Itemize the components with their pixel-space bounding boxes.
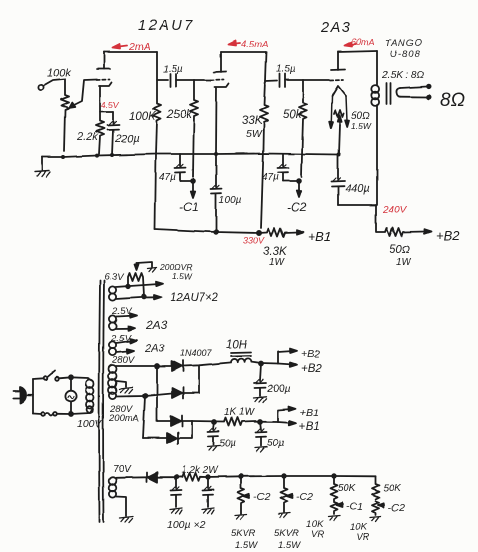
hum pot 50 ohm — [334, 110, 372, 155]
svg-text:1N4007: 1N4007 — [180, 348, 213, 358]
svg-text:10H: 10H — [226, 339, 248, 351]
svg-text:50K: 50K — [383, 483, 402, 494]
svg-text:VR: VR — [356, 532, 369, 543]
AC plug — [13, 379, 33, 414]
power switch — [33, 371, 71, 381]
resistor 100K plate load — [129, 52, 161, 229]
svg-text:2A3: 2A3 — [320, 20, 351, 36]
wire pot wiper to V1A grid — [70, 80, 98, 108]
svg-text:100K: 100K — [129, 111, 157, 123]
svg-text:4.5V: 4.5V — [101, 100, 120, 110]
input jack J1 — [38, 79, 64, 90]
svg-text:-C2: -C2 — [287, 200, 307, 214]
svg-text:+B1: +B1 — [300, 407, 319, 419]
capacitor 1.5µ coupling stage1 — [157, 64, 194, 87]
svg-text:1.5W: 1.5W — [172, 271, 193, 281]
label 2.5K : 8 ohm — [381, 70, 424, 81]
svg-text:1.5W: 1.5W — [351, 121, 372, 131]
resistor 3.3K 1W to +B1 — [259, 229, 332, 269]
tube V1B plate — [214, 52, 226, 72]
svg-text:-C2: -C2 — [296, 491, 313, 503]
bias divider 50K + 10K VR for C1 — [306, 476, 363, 540]
svg-text:+B1: +B1 — [299, 421, 320, 433]
heater hum pot 200 ohm VR — [128, 262, 193, 296]
svg-text:4.5mA: 4.5mA — [241, 39, 268, 50]
diode D5 bias rectifier — [147, 472, 177, 482]
capacitor 220µ cathode bypass — [107, 112, 140, 155]
svg-text:60mA: 60mA — [351, 37, 375, 47]
bias distribution rail — [174, 474, 375, 479]
svg-text:1K 1W: 1K 1W — [224, 407, 256, 418]
svg-text:+B2: +B2 — [301, 348, 320, 360]
HT winding 280V — [108, 355, 157, 424]
svg-text:1.5W: 1.5W — [235, 540, 258, 551]
svg-text:1.5µ: 1.5µ — [276, 64, 296, 75]
svg-text:200mA: 200mA — [108, 413, 139, 424]
filament winding 2.5V b — [109, 333, 166, 356]
wire D1 output — [183, 363, 230, 394]
diode D3 — [157, 416, 192, 427]
wire 2A3 plate to OPT — [338, 51, 377, 52]
svg-text:12AU7×2: 12AU7×2 — [170, 292, 219, 304]
svg-text:50k: 50k — [283, 109, 303, 121]
wire grid V1B — [194, 79, 211, 81]
tube V1B grid — [211, 79, 224, 82]
svg-text:33K: 33K — [242, 115, 264, 127]
mains primary winding 100V — [71, 377, 103, 430]
filament winding 2.5V a — [109, 306, 168, 332]
svg-text:+B2: +B2 — [301, 363, 322, 375]
label TANGO U-808 — [385, 38, 423, 60]
resistor 1K 1W — [192, 407, 256, 426]
red plate current arrow 60mA — [345, 37, 375, 47]
svg-text:100µ: 100µ — [219, 195, 242, 206]
svg-text:50K: 50K — [338, 483, 357, 494]
tube V1A cathode — [99, 83, 112, 113]
diode D4 — [143, 421, 192, 444]
svg-text:6.3V: 6.3V — [104, 272, 125, 283]
fuse — [33, 412, 90, 416]
bias pot 5K VR b — [274, 476, 313, 551]
svg-text:50µ: 50µ — [219, 438, 236, 449]
capacitor 50µ B1 b — [255, 420, 284, 452]
svg-text:220µ: 220µ — [114, 133, 140, 145]
bias pot 5K VR a — [231, 476, 270, 551]
svg-text:-C1: -C1 — [179, 200, 198, 214]
svg-text:50Ω: 50Ω — [389, 244, 411, 256]
svg-text:1W: 1W — [396, 257, 413, 268]
wire to +B1 arrows — [255, 407, 320, 433]
OPT core — [387, 83, 391, 104]
resistor 250k grid return — [166, 80, 198, 177]
arrow to -C1 — [179, 182, 198, 214]
label 8 ohm secondary — [440, 90, 465, 111]
svg-text:8Ω: 8Ω — [440, 90, 465, 111]
resistor 33K 5W plate load — [242, 52, 268, 228]
output transformer OPT primary — [371, 51, 379, 205]
tube V2 2A3 plate — [331, 52, 345, 70]
svg-text:5KVR: 5KVR — [274, 528, 299, 539]
capacitor 100µ bias b — [167, 477, 214, 531]
junction dots ground rail — [61, 152, 341, 159]
wire B1 supply line — [155, 229, 261, 235]
capacitor 100µ B1 filter — [211, 154, 242, 232]
choke 10H — [226, 339, 261, 363]
red plate current arrow 4.5mA — [229, 39, 269, 50]
tube V1B cathode — [215, 84, 229, 155]
bias divider 50K + 10K VR for C2 — [350, 476, 405, 543]
ground symbol left end — [35, 157, 50, 177]
tube V1A grid — [97, 79, 110, 82]
wire grid 2A3 — [303, 79, 329, 81]
capacitor 200µ B2 reservoir — [254, 362, 291, 403]
resistor 50k grid return 2A3 — [283, 80, 307, 177]
capacitor 100µ bias a — [170, 477, 182, 514]
svg-text:47µ: 47µ — [159, 172, 176, 183]
op tube V1A 12AU7 plate — [97, 52, 110, 69]
label 12AU7 — [138, 18, 195, 34]
wire V1A cathode node — [100, 111, 113, 113]
wire to +B2 arrows — [261, 348, 322, 375]
svg-text:12AU7: 12AU7 — [138, 18, 195, 34]
red label 330V — [243, 236, 265, 246]
resistor 50 ohm 1W to +B2 — [376, 205, 460, 268]
tube V2 grid — [330, 79, 343, 82]
label 2A3 — [320, 20, 351, 36]
wire feed D3 — [155, 364, 159, 421]
svg-text:330V: 330V — [243, 236, 265, 246]
capacitor 47µ bias filter C1 — [159, 154, 195, 183]
HT centre tap ground — [117, 381, 133, 394]
svg-text:50µ: 50µ — [267, 438, 284, 449]
svg-text:200µ: 200µ — [266, 383, 291, 395]
svg-text:70V: 70V — [113, 464, 132, 475]
heater winding 6.3V — [104, 272, 219, 304]
svg-text:1.2k 2W: 1.2k 2W — [181, 465, 219, 476]
capacitor 440µ B2 filter — [332, 155, 370, 205]
svg-text:100k: 100k — [47, 67, 71, 79]
svg-text:2A3: 2A3 — [145, 318, 168, 332]
svg-text:1.5W: 1.5W — [278, 540, 301, 551]
svg-text:TANGO: TANGO — [385, 38, 423, 49]
ground rail main — [42, 154, 339, 158]
pilot lamp — [65, 375, 76, 416]
svg-text:-C1: -C1 — [346, 501, 363, 513]
diode D2 — [145, 388, 199, 399]
svg-text:2.2k: 2.2k — [76, 131, 98, 143]
svg-text:100µ ×2: 100µ ×2 — [167, 519, 206, 531]
wire V1B plate top rail — [221, 51, 266, 53]
svg-text:-C2: -C2 — [253, 491, 270, 503]
svg-text:240V: 240V — [382, 205, 408, 216]
wire feed D4 — [143, 394, 147, 438]
svg-text:2.5K : 8Ω: 2.5K : 8Ω — [381, 70, 424, 81]
svg-text:VR: VR — [311, 529, 324, 540]
svg-text:5KVR: 5KVR — [231, 528, 256, 539]
red bias label 4.5V — [101, 100, 120, 110]
bias winding 70V — [109, 464, 146, 523]
red plate current arrow 2mA — [113, 41, 151, 53]
capacitor 50µ B1 a — [207, 420, 236, 450]
capacitor 47µ bias filter C2 — [262, 154, 301, 183]
wire B2 node 240V — [338, 205, 408, 216]
svg-text:U-808: U-808 — [390, 49, 421, 60]
svg-text:250k: 250k — [166, 109, 193, 121]
svg-text:+B2: +B2 — [436, 228, 460, 243]
volume pot 100k — [47, 67, 71, 151]
svg-text:47µ: 47µ — [262, 172, 279, 183]
svg-text:-C2: -C2 — [388, 502, 405, 514]
svg-text:2A3: 2A3 — [144, 343, 165, 355]
wire V1A plate top rail — [104, 51, 157, 53]
resistor 2.2k cathode — [76, 112, 104, 154]
tube V2 filament — [329, 86, 349, 128]
power transformer core — [99, 281, 104, 522]
svg-text:100V: 100V — [77, 418, 103, 430]
svg-text:1.5µ: 1.5µ — [163, 64, 183, 75]
svg-text:5W: 5W — [246, 128, 263, 140]
OPT secondary — [396, 85, 430, 99]
diode D1 1N4007 — [157, 348, 213, 372]
svg-text:280V: 280V — [111, 355, 136, 366]
capacitor 1.5µ coupling stage2 — [265, 64, 303, 87]
svg-text:440µ: 440µ — [345, 183, 370, 195]
arrow to -C2 — [287, 182, 307, 214]
svg-text:+B1: +B1 — [308, 229, 332, 244]
svg-text:1W: 1W — [269, 257, 286, 268]
resistor 1.2k 2W — [176, 465, 219, 481]
